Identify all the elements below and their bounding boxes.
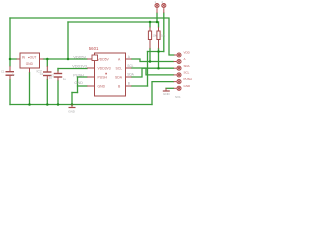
wire GND pin (78, 85, 88, 87)
node B branch (157, 50, 160, 53)
svg-text:SCL: SCL (184, 71, 190, 75)
pin SCL stub (126, 67, 132, 69)
wire VDD5V top rail B (68, 21, 159, 23)
wire B from IC (132, 85, 148, 87)
IC U1 5601 (87, 53, 132, 96)
pin GND stub (87, 85, 95, 87)
pin PUSH (174, 80, 182, 84)
pin PUSH stub (87, 76, 95, 78)
svg-text:GND: GND (98, 84, 106, 88)
pin A stub (126, 58, 132, 60)
svg-text:5601: 5601 (89, 46, 99, 51)
wire C2 top (46, 59, 48, 66)
wire C3 top (57, 69, 59, 71)
svg-text:VDD3V3: VDD3V3 (72, 65, 87, 69)
wire A net (132, 59, 174, 62)
U1 pin names (98, 57, 123, 88)
tiny red mark inside U1 (105, 73, 107, 75)
wire GND riser to rail (71, 93, 73, 105)
wire B branch horizontal (148, 51, 164, 53)
node reg GND on rail (28, 103, 31, 106)
wire C1 bottom (9, 80, 11, 105)
resistor R2 (157, 27, 160, 49)
wire bottom GND rail (10, 104, 152, 106)
pin SDA (174, 66, 182, 70)
wire C2 bottom (46, 80, 48, 105)
pin VDD3V3 stub (87, 67, 95, 69)
svg-text:SV1: SV1 (175, 95, 181, 99)
wire VDD3V3 C3 to IC (58, 68, 87, 70)
wire R1 top lead net (149, 22, 151, 27)
ground symbol left (68, 105, 76, 114)
connector SV1 column (174, 53, 182, 90)
node C3 on rail (57, 103, 60, 106)
svg-text:SCL: SCL (116, 66, 123, 70)
node R1 on A (149, 60, 152, 63)
wire VDD left drop to regulator IN (10, 18, 17, 59)
wire top pin 2 down (163, 13, 165, 52)
svg-text:GND: GND (74, 81, 83, 85)
svg-text:GND: GND (163, 92, 171, 96)
pin VDD (174, 53, 181, 57)
svg-text:OUT: OUT (30, 56, 37, 60)
svg-text:SCL: SCL (127, 64, 133, 68)
wire PUSH to connector (152, 82, 174, 105)
pin GND (174, 86, 182, 90)
top pin header pin 2 (162, 3, 166, 13)
wire SCL net (132, 68, 174, 75)
connector pin labels (184, 51, 192, 88)
svg-text:VDD5V: VDD5V (73, 55, 86, 59)
svg-text:SDA: SDA (115, 75, 123, 79)
wire GND to connector (166, 87, 174, 89)
wire R1 bottom to A net (149, 49, 151, 62)
svg-text:C1: C1 (1, 70, 5, 74)
svg-text:C3: C3 (50, 74, 54, 78)
pin VDD5V stub (87, 58, 95, 60)
wire C1 top (9, 59, 11, 66)
wire SDA net (132, 68, 174, 77)
pin B stub (126, 85, 132, 87)
top pin header pin 1 (155, 3, 159, 13)
svg-text:GND: GND (68, 110, 76, 114)
svg-text:PUSH: PUSH (184, 77, 192, 81)
capacitor C2 (43, 66, 52, 80)
svg-text:C2: C2 (40, 72, 44, 76)
svg-text:PUSH: PUSH (73, 73, 84, 77)
node top pin1 on rail B (156, 21, 159, 24)
svg-text:GND: GND (184, 84, 192, 88)
svg-text:A: A (184, 57, 186, 61)
wire regulator OUT to IC VDD5V (44, 58, 88, 60)
node C2 on rail (46, 103, 49, 106)
wire VDD5V drop at x=68 (67, 22, 69, 59)
pin SDA stub (126, 76, 132, 78)
svg-text:PUSH: PUSH (98, 75, 108, 79)
wire PUSH/GND vertical (77, 77, 79, 93)
node C2 tap (46, 58, 49, 61)
node R1 on rail B (149, 21, 152, 24)
svg-text:SDA: SDA (127, 73, 134, 77)
wire regulator GND down (29, 73, 31, 105)
wire top pin 1 down (156, 13, 158, 22)
node VDD5V drop (67, 58, 70, 61)
node R2 on SDA (157, 67, 160, 70)
svg-text:B: B (128, 81, 130, 85)
node reg IN / C1 (9, 58, 12, 61)
wire VDD top rail (10, 18, 174, 55)
junction dots (9, 21, 160, 106)
pin SCL (174, 73, 182, 77)
svg-text:GND: GND (26, 62, 34, 66)
wire C3 bottom (57, 81, 59, 105)
svg-text:VDD3V3: VDD3V3 (98, 66, 111, 70)
pin A (174, 59, 182, 63)
wire GND jog to riser (72, 92, 78, 94)
svg-text:VDD: VDD (184, 51, 191, 55)
capacitor C3 (54, 71, 63, 81)
wire R2 top lead net (158, 22, 160, 27)
resistor R1 (148, 27, 151, 49)
ground symbol right (163, 88, 171, 96)
svg-text:SDA: SDA (184, 64, 190, 68)
svg-text:VDD5V: VDD5V (98, 57, 110, 61)
capacitor C1 (6, 66, 15, 80)
notch square on U1 (92, 55, 98, 61)
wire PUSH pin (78, 76, 88, 78)
node GND riser on rail (71, 103, 74, 106)
regulator IC2 (17, 53, 44, 73)
wire B vertical (147, 52, 149, 87)
wire R2 bottom to SDA net (158, 49, 160, 69)
